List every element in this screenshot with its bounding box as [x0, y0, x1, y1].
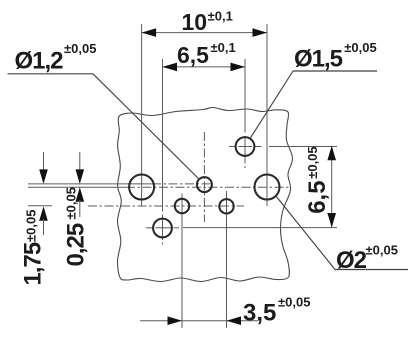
- svg-text:6,5: 6,5: [304, 180, 331, 213]
- label 6,5 ±0,05 (rotated, right side): [304, 146, 331, 213]
- row B centerline y=187.2 (Ø2 hole row): [28, 186, 126, 188]
- svg-text:±0,05: ±0,05: [278, 295, 310, 310]
- row A centerline y=183.9 (Ø1,2 centre hole row): [28, 183, 152, 185]
- dimension 0,25 ±0,05 (left, vertical): [79, 152, 81, 172]
- dimension line 6,5 ±0,05 (right, vertical): [331, 146, 333, 228]
- svg-text:10: 10: [182, 9, 208, 35]
- hole Ø1,5 top: [236, 137, 255, 156]
- svg-text:±0,05: ±0,05: [305, 146, 320, 178]
- extension line y=227.6 (6,5 right dim, bottom; centerline of hole Ø1,5 bottom): [146, 227, 153, 229]
- dimension line 6,5 ±0,1: [163, 66, 246, 68]
- svg-text:±0,1: ±0,1: [211, 40, 236, 55]
- svg-text:±0,05: ±0,05: [24, 210, 39, 242]
- svg-text:Ø1,5: Ø1,5: [294, 45, 343, 72]
- svg-text:Ø1,2: Ø1,2: [15, 48, 64, 75]
- hole Ø1,2 lower-left: [175, 199, 189, 213]
- svg-text:±0,05: ±0,05: [344, 40, 376, 55]
- svg-text:1,75: 1,75: [20, 242, 47, 285]
- hole Ø2 right: [255, 175, 280, 200]
- svg-text:±0,05: ±0,05: [366, 243, 398, 258]
- svg-text:0,25: 0,25: [63, 223, 90, 266]
- svg-text:±0,1: ±0,1: [208, 9, 233, 24]
- leader Ø1,2 (underline + diagonal to centre hole): [8, 73, 94, 75]
- hole Ø1,2 lower-right: [219, 199, 233, 213]
- svg-text:Ø2: Ø2: [336, 247, 367, 274]
- label 0,25 ±0,05 (rotated): [63, 187, 90, 266]
- leader Ø1,5 (underline + diagonal to top hole): [293, 70, 377, 72]
- extension line x=226.5 (3,5 dim right; centerline of hole Ø1,2 lower-right): [226, 191, 228, 328]
- leader Ø2 (diagonal from right Ø2 hole + underline to edge): [276, 196, 335, 270]
- extension line x=267 (10 dim, right; also centerline of hole Ø2 right): [266, 24, 268, 206]
- dimension line 3,5 ±0,05 (bottom): [140, 320, 258, 322]
- extension line x=142 (10 dim, left; also centerline of hole Ø2 left): [141, 24, 143, 206]
- hole Ø1,5 bottom: [153, 219, 172, 238]
- extension line x=245 (6,5 top dim, right; continues into hole Ø1,5 top): [244, 59, 246, 133]
- dimension 1,75 ±0,05 (left, vertical): [43, 152, 45, 172]
- hole Ø2 left: [129, 175, 154, 200]
- svg-text:6,5: 6,5: [177, 42, 209, 68]
- label 1,75 ±0,05 (rotated): [20, 210, 47, 286]
- hole Ø1,2 centre: [197, 177, 212, 192]
- svg-text:3,5: 3,5: [243, 300, 276, 327]
- extension line x=182 (3,5 dim left; centerline of hole Ø1,2 lower-left): [181, 194, 183, 329]
- svg-text:±0,05: ±0,05: [64, 187, 79, 219]
- extension line x=162.5 (6,5 top dim, left; continues into hole Ø1,5 bottom): [162, 59, 164, 212]
- centerline x=204.4 (Ø1,2 centre hole, vertical): [203, 132, 205, 222]
- svg-text:±0,05: ±0,05: [64, 41, 96, 56]
- row C centerline y=206 (lower Ø1,2 hole row): [28, 205, 52, 207]
- extension line y=146.5 (6,5 right dim, top; centerline of hole Ø1,5 top): [229, 146, 236, 148]
- board outline (sketched break lines): [117, 107, 292, 281]
- dimension line 10 ±0,1: [142, 32, 267, 34]
